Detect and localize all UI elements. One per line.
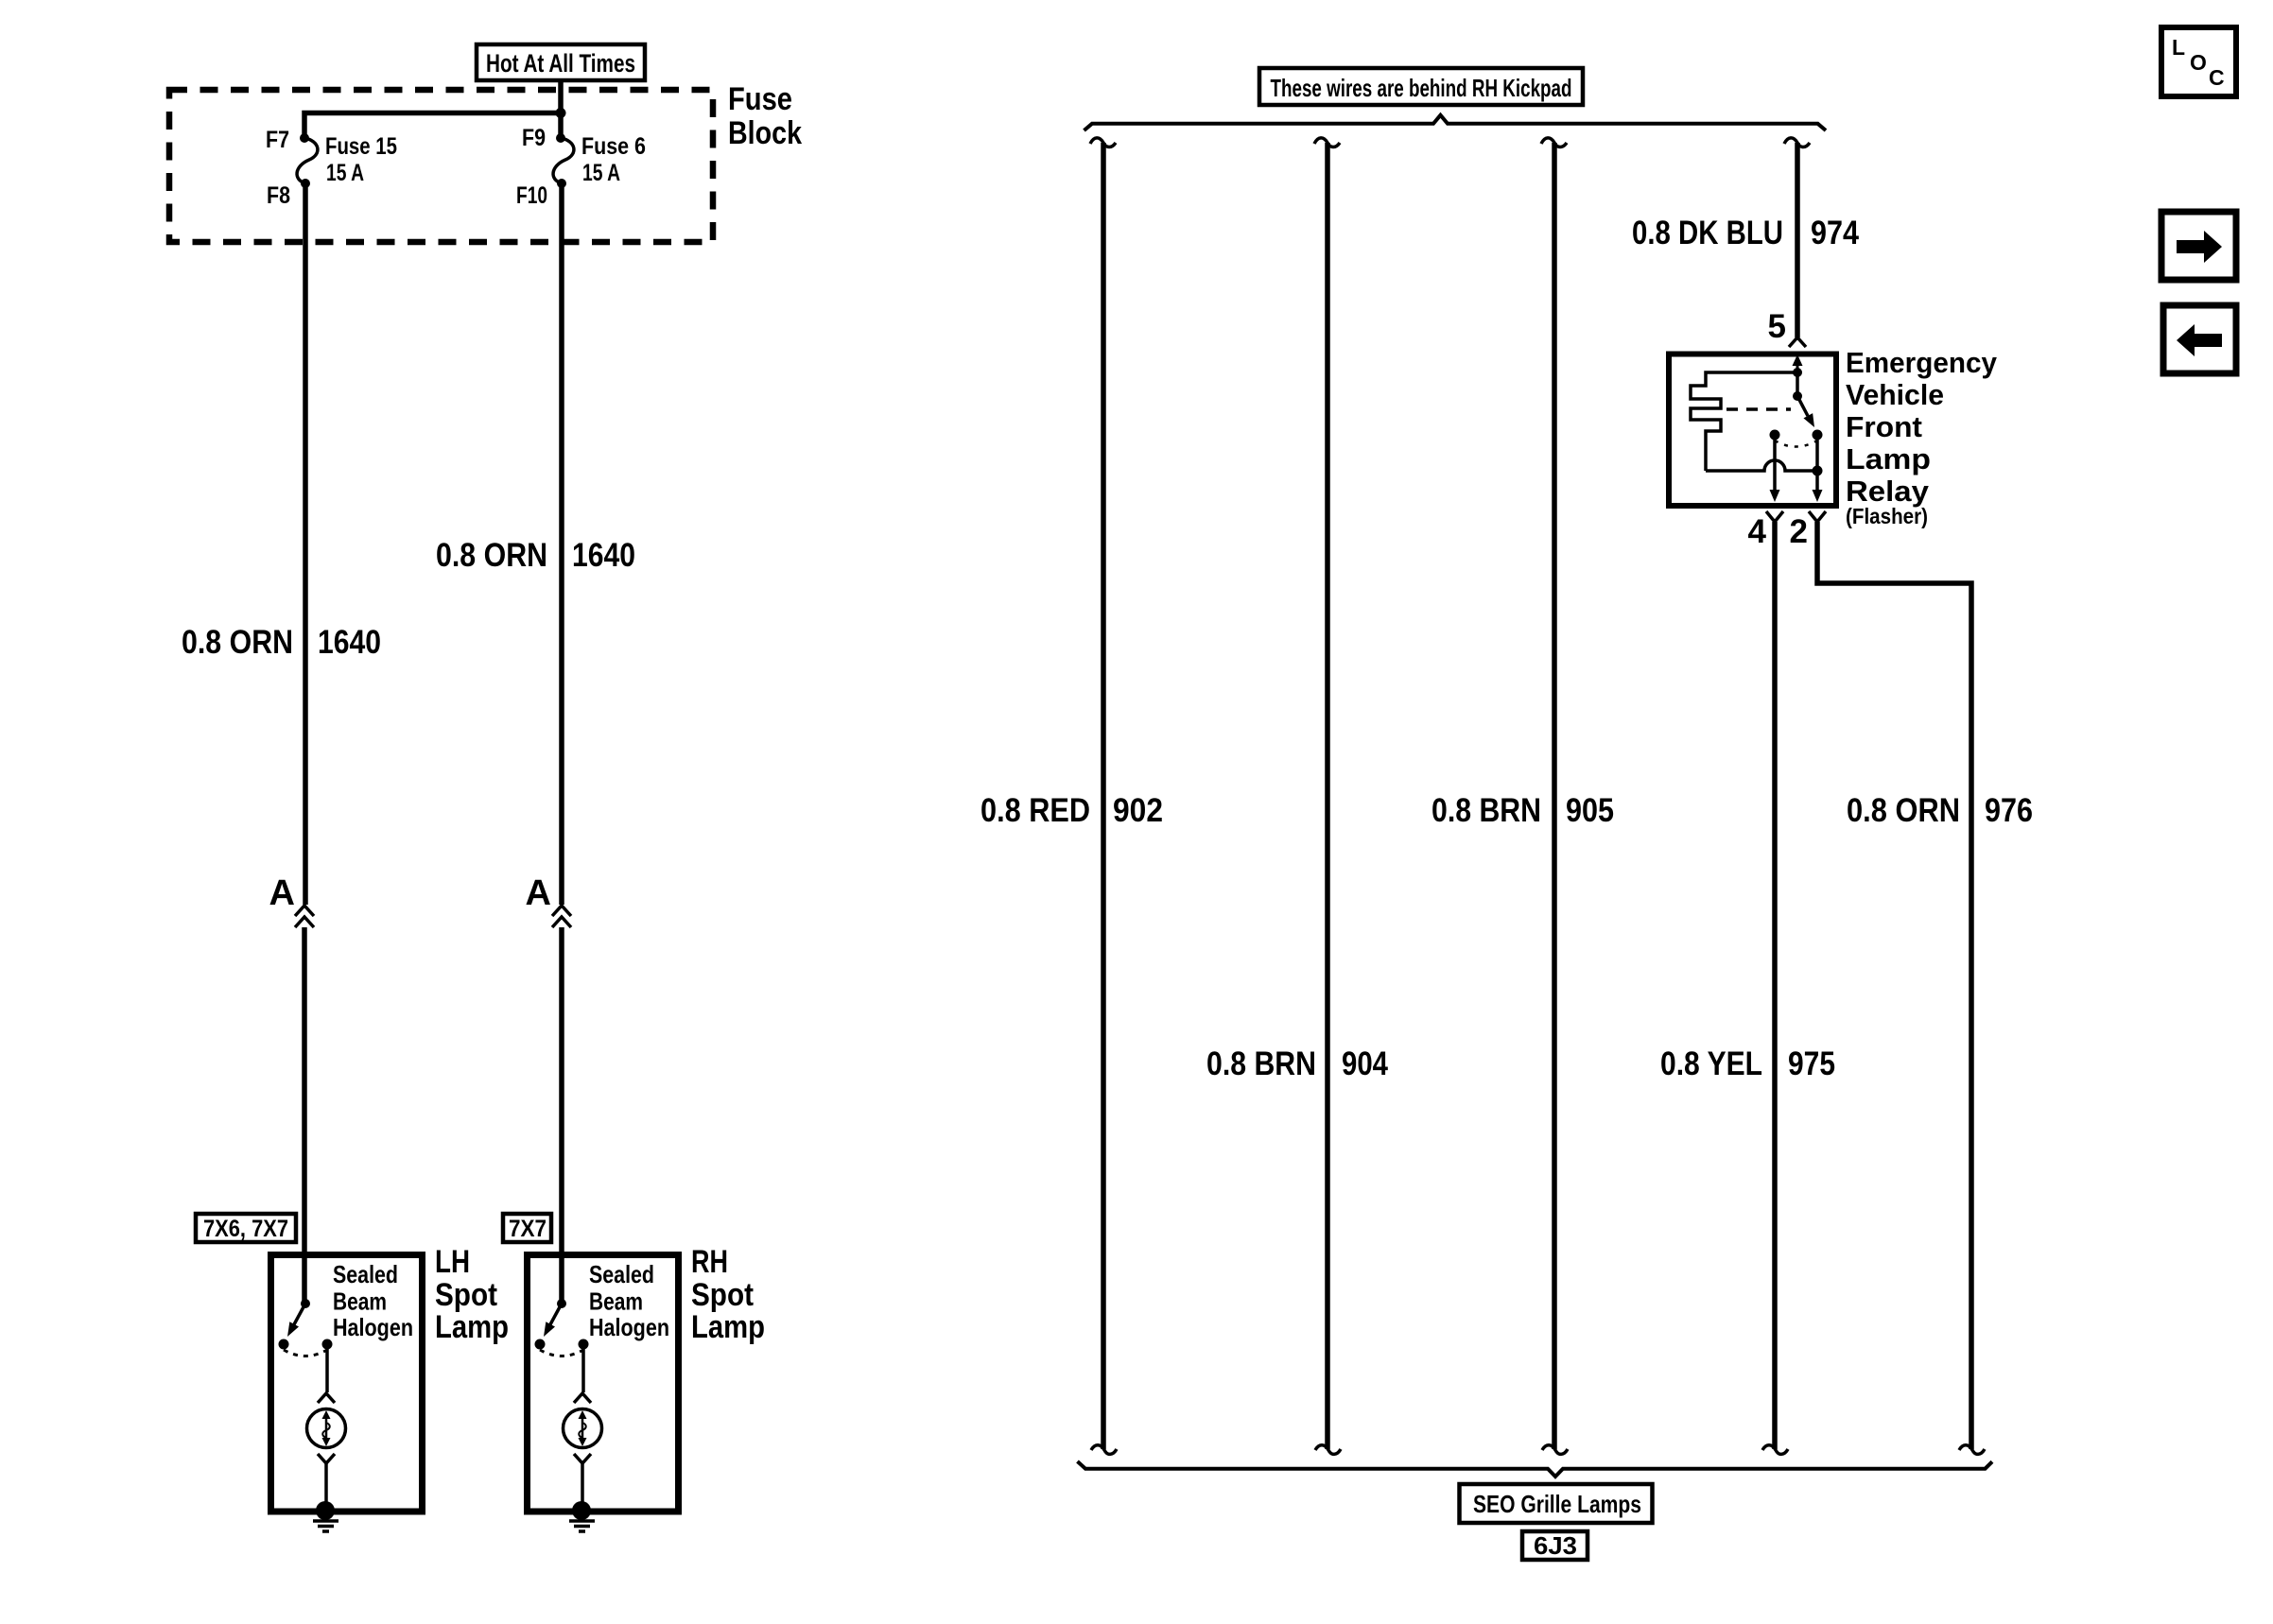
wire 905 bottom hook: [1542, 1445, 1568, 1455]
relay internal: bottom conductor with hop over pin4: [1706, 460, 1817, 471]
wire 975 from pin 4: [1772, 522, 1778, 1449]
svg-text:974: 974: [1811, 215, 1859, 251]
fuse F9/F10 Fuse 6: [516, 125, 646, 209]
svg-text:These wires are behind RH Kick: These wires are behind RH Kickpad: [1271, 74, 1572, 102]
connector label 7X6, 7X7: [196, 1214, 296, 1242]
forward arrow box: [2161, 212, 2236, 280]
svg-text:Fuse 6: Fuse 6: [581, 133, 646, 160]
LH lamp name: [435, 1244, 509, 1345]
wire branch to fuse 15: [304, 113, 561, 139]
relay internal: pin5 entry arrow: [1793, 354, 1803, 377]
svg-text:Lamp: Lamp: [691, 1309, 765, 1345]
relay internal: mechanical link (dashed): [1726, 407, 1791, 411]
in-line connector A (right wire): [526, 873, 571, 927]
relay name: [1846, 346, 1998, 528]
svg-text:Hot At All Times: Hot At All Times: [486, 49, 635, 78]
page reference 6J3: [1522, 1531, 1588, 1560]
svg-text:O: O: [2190, 50, 2207, 75]
wire label 0.8 BRN 904: [1206, 1045, 1388, 1082]
harness label "These wires are behind RH Kickpad": [1259, 68, 1583, 105]
svg-text:A: A: [269, 873, 295, 913]
svg-text:0.8 BRN: 0.8 BRN: [1431, 792, 1541, 829]
bottom harness brace: [1078, 1461, 1993, 1477]
RH spot lamp box: [528, 1255, 679, 1512]
svg-text:0.8 BRN: 0.8 BRN: [1206, 1045, 1316, 1082]
svg-text:Relay: Relay: [1846, 475, 1930, 508]
wire label 0.8 ORN 1640 (right run): [436, 537, 635, 574]
RH lamp internal text: [589, 1260, 669, 1341]
svg-text:Beam: Beam: [589, 1287, 643, 1316]
svg-text:L: L: [2172, 35, 2185, 60]
relay internal: pin 2 lead with arrow: [1813, 435, 1823, 502]
svg-text:(Flasher): (Flasher): [1846, 504, 1928, 528]
wire 904 bottom hook: [1315, 1445, 1341, 1455]
NAVIGATION ICONS: [2161, 27, 2236, 373]
RH switch: [535, 1299, 589, 1356]
svg-text:Halogen: Halogen: [333, 1313, 413, 1341]
LH ground: [313, 1501, 338, 1531]
relay internal: flasher element (coil/bimetal meander): [1691, 372, 1797, 471]
svg-text:Spot: Spot: [435, 1277, 497, 1313]
wire 902 bottom hook: [1091, 1445, 1117, 1455]
svg-text:15 A: 15 A: [582, 160, 620, 186]
svg-text:F8: F8: [267, 182, 290, 209]
pin 5 connector chevron: [1789, 337, 1806, 347]
in-line connector A (left wire): [269, 873, 314, 927]
svg-text:0.8 ORN: 0.8 ORN: [1847, 792, 1960, 829]
LOC legend box: [2161, 27, 2236, 96]
relay internal: armature pivot node: [1793, 391, 1802, 401]
relay internal: contact node pin 4 side: [1770, 430, 1780, 441]
pin 4 connector fork: [1766, 511, 1783, 522]
wire 904 top hook: [1314, 138, 1340, 147]
svg-text:Fuse: Fuse: [728, 81, 792, 117]
svg-text:976: 976: [1985, 792, 2033, 829]
svg-text:1640: 1640: [572, 537, 635, 574]
svg-text:0.8 ORN: 0.8 ORN: [436, 537, 547, 574]
wire label 0.8 BRN 905: [1431, 792, 1614, 829]
svg-text:905: 905: [1566, 792, 1614, 829]
svg-text:4: 4: [1748, 513, 1767, 550]
svg-text:Vehicle: Vehicle: [1846, 378, 1944, 411]
RH lamp bulb: [564, 1344, 602, 1509]
svg-text:15 A: 15 A: [326, 160, 364, 186]
wire 904: [1325, 143, 1330, 1449]
wire F8 down to LH lamp: [303, 183, 308, 905]
svg-text:F9: F9: [522, 125, 546, 151]
svg-text:Sealed: Sealed: [333, 1260, 398, 1288]
wire label 0.8 RED 902: [980, 792, 1163, 829]
relay internal: junction node to pin 2: [1813, 466, 1823, 476]
wire from Hot At All Times into fuse block: [558, 80, 564, 138]
svg-text:C: C: [2209, 65, 2225, 90]
wire label 0.8 ORN 1640 (left run): [182, 624, 381, 661]
svg-text:0.8 RED: 0.8 RED: [980, 792, 1090, 829]
svg-text:7X7: 7X7: [509, 1216, 547, 1242]
fuse block name: [728, 81, 802, 151]
svg-text:904: 904: [1342, 1045, 1388, 1082]
wire F10 down to RH lamp: [559, 183, 564, 905]
svg-text:SEO Grille Lamps: SEO Grille Lamps: [1473, 1490, 1641, 1518]
LEFT SECTION: [169, 44, 802, 1531]
svg-text:Beam: Beam: [333, 1287, 387, 1316]
svg-text:Block: Block: [728, 115, 802, 151]
svg-text:7X6, 7X7: 7X6, 7X7: [203, 1216, 288, 1242]
svg-text:Lamp: Lamp: [435, 1309, 509, 1345]
node junction at B+ feed: [556, 108, 566, 118]
back arrow box: [2163, 305, 2236, 373]
svg-text:RH: RH: [691, 1244, 728, 1280]
LH lamp internal text: [333, 1260, 413, 1341]
top harness brace: [1084, 115, 1827, 130]
wire 974 top hook: [1784, 138, 1810, 147]
svg-text:Halogen: Halogen: [589, 1313, 669, 1341]
svg-text:0.8 ORN: 0.8 ORN: [182, 624, 293, 661]
svg-text:F10: F10: [516, 182, 547, 209]
pin 2 connector fork: [1809, 511, 1826, 522]
RIGHT SECTION: [980, 68, 2033, 1560]
LH switch: [279, 1299, 333, 1356]
svg-text:LH: LH: [435, 1244, 470, 1280]
wire label 0.8 DK BLU 974: [1632, 215, 1859, 251]
svg-text:Emergency: Emergency: [1846, 346, 1998, 379]
wire 976 bottom hook: [1959, 1445, 1985, 1455]
svg-text:Fuse 15: Fuse 15: [325, 133, 397, 160]
svg-text:Lamp: Lamp: [1846, 442, 1931, 475]
wire 902: [1101, 143, 1106, 1449]
wire 976 from pin 2 with jog: [1817, 522, 1971, 1449]
RH lamp name: [691, 1244, 765, 1345]
relay internal: pin 4 lead with arrow: [1770, 435, 1780, 502]
wire below connector A right: [559, 927, 564, 1304]
fuse F7/F8 Fuse 15: [266, 127, 397, 209]
relay internal: dashed contact arc: [1775, 441, 1817, 447]
power label "Hot At All Times": [477, 44, 645, 80]
relay box: Emergency Vehicle Front Lamp Relay: [1669, 354, 1836, 507]
svg-text:5: 5: [1768, 308, 1786, 345]
relay internal: contact node pin 2 side: [1813, 430, 1823, 441]
svg-text:2: 2: [1790, 513, 1808, 550]
wire 905: [1552, 143, 1557, 1449]
wire below connector A left: [302, 927, 307, 1304]
svg-text:F7: F7: [266, 127, 289, 153]
wire 905 top hook: [1541, 138, 1567, 147]
wire 975 bottom hook: [1762, 1445, 1788, 1455]
svg-text:Spot: Spot: [691, 1277, 754, 1313]
LH spot lamp box: [271, 1255, 423, 1512]
svg-text:6J3: 6J3: [1534, 1531, 1577, 1560]
harness label SEO Grille Lamps: [1460, 1484, 1653, 1523]
wire label 0.8 ORN 976: [1847, 792, 2033, 829]
svg-text:1640: 1640: [318, 624, 381, 661]
svg-text:A: A: [526, 873, 551, 913]
LH lamp bulb: [307, 1344, 346, 1509]
svg-text:Sealed: Sealed: [589, 1260, 654, 1288]
connector label 7X7: [503, 1214, 551, 1242]
svg-text:0.8 YEL: 0.8 YEL: [1660, 1045, 1762, 1082]
svg-text:902: 902: [1113, 792, 1163, 829]
fuse block dashed boundary: [169, 90, 713, 242]
RH ground: [569, 1501, 595, 1531]
wire label 0.8 YEL 975: [1660, 1045, 1835, 1082]
svg-text:Front: Front: [1846, 410, 1922, 443]
wire 902 top hook: [1090, 138, 1116, 147]
relay internal: armature arrow: [1797, 396, 1819, 430]
svg-text:0.8 DK BLU: 0.8 DK BLU: [1632, 215, 1783, 251]
svg-text:975: 975: [1788, 1045, 1835, 1082]
wire 974 to relay pin 5: [1795, 143, 1800, 337]
